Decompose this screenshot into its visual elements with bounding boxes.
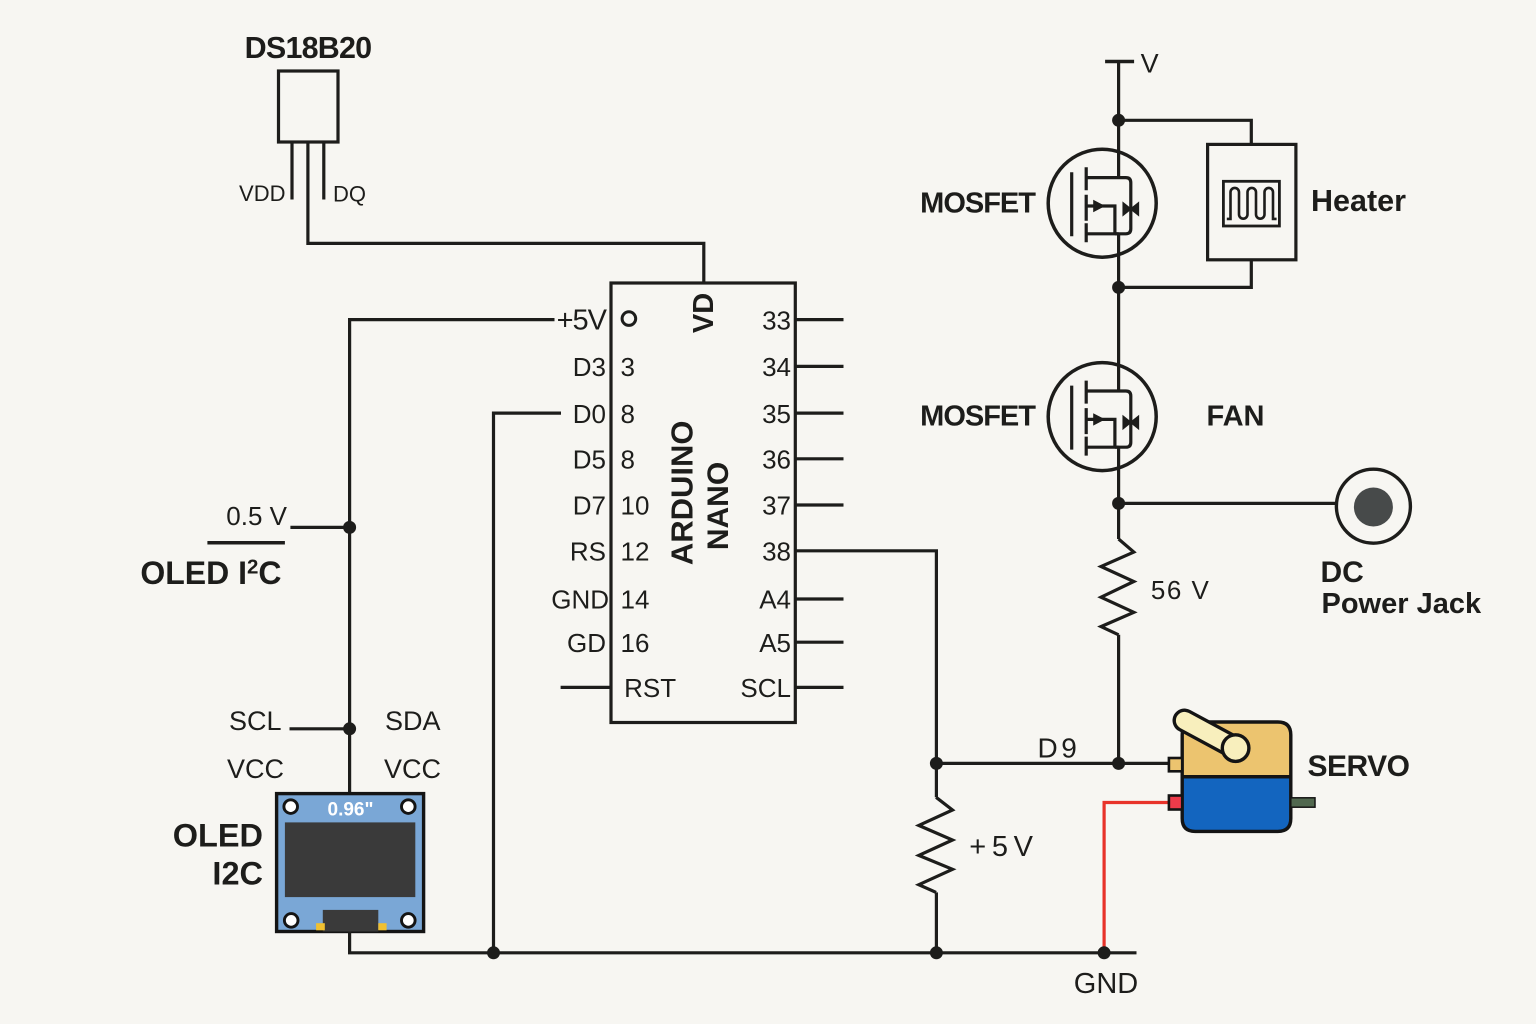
svg-text:33: 33 — [762, 305, 791, 335]
node SCL junction — [343, 722, 356, 735]
svg-text:0.96": 0.96" — [328, 800, 374, 821]
svg-text:DQ: DQ — [333, 182, 366, 207]
pin A4 stub — [795, 597, 843, 600]
svg-text:10: 10 — [621, 491, 650, 521]
svg-text:3: 3 — [621, 352, 635, 382]
wire Q1 source to Q2 drain — [1117, 234, 1120, 391]
servo body upper yellow — [1182, 722, 1291, 777]
svg-text:I2C: I2C — [212, 856, 263, 892]
servo body lower blue — [1182, 777, 1291, 832]
svg-text:D3: D3 — [573, 352, 606, 382]
node heater bottom junction — [1112, 281, 1125, 294]
svg-text:ARDUINO: ARDUINO — [665, 420, 700, 565]
svg-text:56 V: 56 V — [1151, 575, 1211, 605]
svg-text:Heater: Heater — [1311, 184, 1406, 218]
wire V to MOSFET Q1 drain — [1117, 62, 1120, 178]
wire OLED to ground rail — [350, 932, 1137, 953]
supply rail V bar — [1105, 60, 1134, 64]
wire D9 servo signal — [936, 762, 1169, 765]
svg-text:DS18B20: DS18B20 — [245, 31, 372, 65]
svg-text:SDA: SDA — [385, 706, 441, 736]
pin lead VDD — [290, 142, 293, 200]
svg-text:VCC: VCC — [384, 754, 441, 784]
svg-text:36: 36 — [762, 445, 791, 475]
wire D0 pin to ground rail — [494, 413, 562, 953]
OLED screen — [285, 822, 415, 897]
pin 34 stub — [795, 365, 843, 368]
svg-text:OLED I2C: OLED I2C — [140, 555, 281, 591]
wire +5V pin to OLED rail — [350, 320, 555, 794]
pin lead DQ — [322, 142, 325, 200]
OLED mounting hole top-left — [284, 800, 298, 814]
svg-text:35: 35 — [762, 399, 791, 429]
svg-text:DC: DC — [1321, 556, 1364, 589]
resistor R2 +5V pull-up — [919, 797, 953, 892]
transistor Q1 MOSFET — [1048, 149, 1156, 257]
svg-text:+5V: +5V — [557, 304, 608, 336]
transistor Q2 MOSFET — [1048, 363, 1156, 471]
svg-text:14: 14 — [621, 585, 650, 615]
servo signal connector yellow — [1169, 758, 1182, 771]
DC power jack outer ring — [1336, 469, 1410, 543]
node D0 ground junction — [487, 946, 500, 959]
servo horn circle — [1222, 735, 1249, 762]
svg-text:GND: GND — [1074, 968, 1138, 1000]
svg-text:NANO: NANO — [702, 462, 735, 550]
wire SCL tap — [290, 727, 350, 730]
svg-text:8: 8 — [621, 399, 635, 429]
heater element coil — [1227, 188, 1277, 219]
wire servo ground red — [1104, 803, 1169, 953]
svg-text:8: 8 — [621, 445, 635, 475]
svg-text:A4: A4 — [759, 585, 791, 615]
wire DS18B20 data to Arduino VD pin — [308, 142, 704, 283]
svg-text:SCL: SCL — [229, 706, 282, 736]
svg-text:SERVO: SERVO — [1308, 750, 1410, 783]
svg-text:0.5 V: 0.5 V — [226, 501, 287, 531]
wire heater top branch — [1119, 120, 1252, 144]
svg-text:V: V — [1141, 49, 1159, 79]
node pullup ground junction — [930, 946, 943, 959]
servo ground connector red — [1169, 796, 1182, 810]
wire heater bottom branch — [1119, 260, 1252, 288]
svg-text:MOSFET: MOSFET — [920, 401, 1036, 433]
svg-text:OLED: OLED — [173, 818, 263, 854]
pin 37 stub — [795, 503, 843, 506]
divider line under 0.5 V — [207, 541, 285, 545]
pin 35 stub — [795, 412, 843, 415]
pin 36 stub — [795, 457, 843, 460]
OLED mounting hole bottom-left — [284, 914, 298, 928]
svg-text:D5: D5 — [573, 445, 606, 475]
svg-text:RST: RST — [624, 673, 676, 703]
OLED display module board — [277, 794, 424, 932]
OLED mounting hole top-right — [402, 800, 416, 814]
svg-text:Power Jack: Power Jack — [1322, 588, 1482, 620]
OLED connector pad left — [316, 923, 325, 930]
pin RST stub — [561, 686, 611, 689]
wire 0.5V tap — [290, 526, 349, 529]
svg-text:GD: GD — [567, 628, 606, 658]
svg-text:GND: GND — [551, 585, 609, 615]
svg-text:FAN: FAN — [1207, 401, 1265, 433]
OLED connector pad right — [378, 923, 386, 930]
node D9 right junction — [1112, 757, 1125, 770]
resistor R1 56V — [1101, 539, 1134, 635]
pin SCL stub — [795, 686, 843, 689]
svg-text:16: 16 — [621, 628, 650, 658]
wire Q2 source to resistor R1 — [1117, 447, 1120, 539]
wire pin38 to servo node — [795, 551, 936, 798]
DC power jack center pin — [1354, 488, 1393, 527]
svg-text:D0: D0 — [573, 399, 606, 429]
OLED connector — [323, 910, 379, 932]
node D9 left junction — [930, 757, 943, 770]
svg-text:37: 37 — [762, 491, 791, 521]
heater element box — [1223, 181, 1279, 226]
svg-text:RS: RS — [570, 537, 606, 567]
svg-text:12: 12 — [621, 537, 650, 567]
wire DC jack branch — [1119, 502, 1337, 505]
node red wire ground junction — [1098, 946, 1111, 959]
svg-text:VDD: VDD — [239, 181, 285, 206]
svg-text:A5: A5 — [759, 628, 791, 658]
pin 33 stub — [795, 318, 843, 321]
wire resistor R1 to D9 node — [1117, 635, 1120, 764]
svg-text:VCC: VCC — [227, 754, 284, 784]
IC U1 Arduino Nano body — [611, 283, 795, 723]
node heater top junction — [1112, 114, 1125, 127]
svg-text:+ 5 V: + 5 V — [969, 831, 1033, 863]
servo shaft connector green — [1291, 798, 1315, 807]
svg-text:VD: VD — [688, 293, 720, 333]
node DC jack junction — [1112, 497, 1125, 510]
svg-text:D7: D7 — [573, 491, 606, 521]
wire resistor R2 to ground rail — [935, 892, 938, 952]
pin A5 stub — [795, 641, 843, 644]
svg-text:38: 38 — [762, 537, 791, 567]
svg-text:MOSFET: MOSFET — [920, 187, 1036, 219]
servo arm bar — [1185, 721, 1236, 749]
svg-text:34: 34 — [762, 352, 791, 382]
temperature sensor DS18B20 body — [279, 71, 339, 142]
node 0.5V junction — [343, 521, 356, 534]
heater load body — [1208, 144, 1296, 259]
pin circle indicator — [622, 312, 636, 326]
svg-text:SCL: SCL — [740, 673, 791, 703]
OLED mounting hole bottom-right — [402, 914, 416, 928]
svg-text:D9: D9 — [1038, 733, 1081, 764]
